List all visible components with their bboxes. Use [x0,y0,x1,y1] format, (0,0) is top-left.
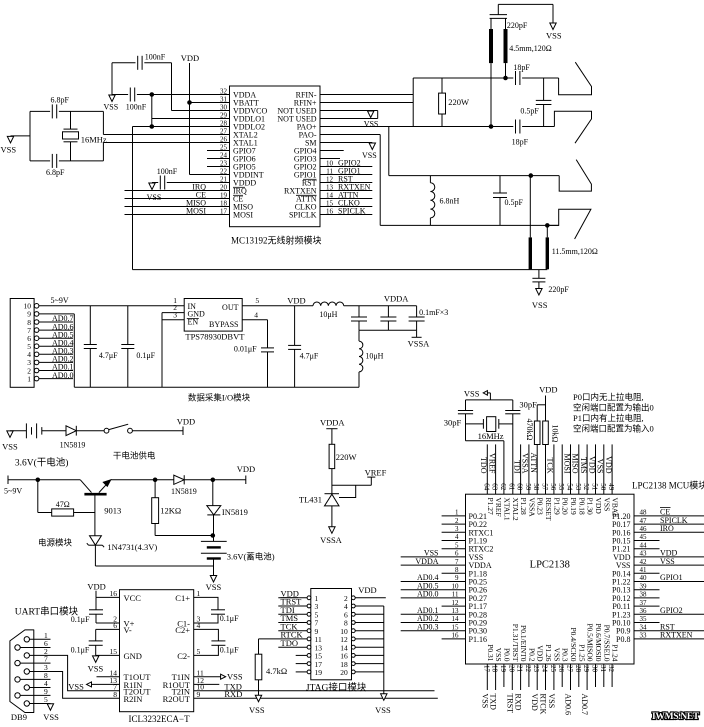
wire PAO+ link to lower network top rail [388,127,390,176]
svg-text:14: 14 [326,191,334,199]
svg-text:VDD: VDD [536,645,545,662]
svg-text:5: 5 [455,541,459,549]
overline on TRST label [281,597,299,599]
wire U4 pin 6 VSS [401,556,466,558]
wire U4 pin 58 P0.23 [536,445,538,495]
junction dot bottom rail stripline [546,224,550,228]
wire zener to bottom rail [94,545,96,566]
wire lower network bottom rail [380,224,559,226]
svg-text:6.8nH: 6.8nH [440,197,460,206]
svg-text:VDD: VDD [87,581,105,591]
capacitor C2 100nF on VDDA [129,88,131,102]
svg-text:16: 16 [326,207,334,215]
svg-text:P1.16: P1.16 [469,635,487,644]
svg-text:VDD: VDD [594,498,603,515]
J2 pin 15 [307,654,311,658]
svg-text:VDD: VDD [539,385,557,395]
wire pin8 stub [320,150,344,152]
svg-text:TDO: TDO [281,638,298,648]
svg-text:44: 44 [640,541,648,549]
wire U4 pin 28 P1.25 [578,664,580,687]
svg-text:RESET: RESET [544,498,553,521]
svg-text:28: 28 [574,665,582,673]
capacitor 0.5pF lower network [499,176,501,193]
wire T2IN pin10 TXD net [194,690,435,692]
wire U4 pin 18 VSS [495,664,497,690]
svg-text:4.7μF: 4.7μF [300,352,319,361]
battery BT2 3.6V rechargeable symbol [201,540,227,542]
wire GND pin15 [96,654,120,656]
wire pin20 IRQ net [125,190,230,192]
svg-text:GPIO2: GPIO2 [660,606,683,615]
svg-text:15: 15 [326,199,334,207]
wire U4 pin 24 P1.26 [545,664,547,690]
svg-text:60: 60 [516,483,524,491]
svg-text:5: 5 [255,296,259,305]
svg-text:VDD: VDD [604,456,613,474]
svg-text:31: 31 [599,665,607,673]
wire U4 pin 56 P1.29 [553,444,555,494]
wire U4 pin 21 P0.1/EINT0 [520,664,522,690]
svg-text:VSS: VSS [104,103,119,112]
wire J2 TDI net [278,613,307,615]
svg-text:P1.29: P1.29 [552,498,561,516]
svg-text:P1口内有上拉电阻,: P1口内有上拉电阻, [573,413,644,423]
wire TL431 anode to VSSA [331,506,333,527]
svg-text:21: 21 [516,665,524,673]
arrow into R1IN [87,682,92,687]
wire J2 TMS net [278,622,307,624]
wire pin21 VDDD to C3 and VSS [167,182,230,184]
svg-text:35: 35 [640,615,648,623]
svg-text:R2IN: R2IN [124,694,143,704]
diode D3 1N5819 shunt [212,480,214,506]
wire U4 pin 10 P0.26 [401,589,466,591]
wire pin1 RFIN- to network [320,94,413,96]
capacitor 220pF top [490,14,507,16]
wire U4 pin 17 P0.31 [486,664,488,690]
wire lower network top rail [389,175,559,177]
svg-text:P0.2: P0.2 [527,648,536,662]
svg-text:P1.28: P1.28 [519,498,528,516]
wire C2- pin5 [194,645,219,655]
svg-text:220pF: 220pF [548,285,569,294]
J2 pin 14 [351,645,355,649]
wire J1 pin6 AD0.5 net [39,337,73,339]
svg-text:13: 13 [326,183,334,191]
svg-text:12KΩ: 12KΩ [160,506,181,516]
wire crystal loop right lower to XTAL1 [102,143,104,161]
wire pin25 GPIO7 stub [207,150,230,152]
svg-text:3: 3 [173,310,177,319]
svg-text:64: 64 [482,483,490,491]
wire U4 pin 9 P0.25 [401,581,466,583]
inductor L2 10uH series VDD [313,302,344,306]
svg-text:23: 23 [532,665,540,673]
wire U4 pin 3 RTXC1 [442,531,466,533]
wire analog ground bus [359,329,417,331]
svg-text:6: 6 [113,621,117,630]
svg-text:VSS: VSS [596,459,605,474]
svg-text:VREF: VREF [494,498,503,517]
svg-text:IRO: IRO [660,524,674,533]
svg-text:空闲端口配置为输出0: 空闲端口配置为输出0 [573,403,654,413]
svg-text:1N4731(4.3V): 1N4731(4.3V) [107,542,157,552]
svg-text:3.6V(蓄电池): 3.6V(蓄电池) [227,552,275,562]
resistor R6 10k ohm [543,421,549,445]
svg-text:11.5mm,120Ω: 11.5mm,120Ω [552,247,598,256]
svg-text:R2OUT: R2OUT [163,694,191,704]
svg-text:16MHz: 16MHz [478,431,504,441]
svg-text:P0.0: P0.0 [502,648,511,662]
ground VSS pins 3-4 [368,111,374,118]
capacitor 220pF bottom [538,270,540,279]
svg-text:220W: 220W [336,452,357,462]
wire pin18 MISO net [125,206,230,208]
inductor L3 10uH shunt [358,330,360,341]
J2 pin 17 [307,662,311,666]
svg-text:P0.1/EINT0: P0.1/EINT0 [519,625,528,662]
svg-text:VDDA: VDDA [320,417,345,427]
capacitor 18pF top series [515,71,517,85]
IC U4 LPC2138 body [466,494,635,664]
junction dot 47 ohm branch [36,478,40,482]
P1 DB9 pin 3 [24,669,29,674]
svg-text:P1.25: P1.25 [577,644,586,662]
wire U4 pin 43 VDD [634,556,704,558]
svg-text:53: 53 [574,483,582,491]
wire T1OUT pin14 stub [97,676,120,678]
svg-text:P0.4/SCK0: P0.4/SCK0 [569,628,578,662]
svg-text:57: 57 [541,483,549,491]
capacitor C7 0.1uF input [127,306,129,345]
svg-text:VSSA: VSSA [521,453,530,474]
svg-text:58: 58 [532,483,540,491]
wire D3 to battery BT2 [213,515,215,542]
capacitor C14 0.1uF V- to GND [95,629,97,641]
ground VSS JTAG [381,694,387,701]
svg-text:JTAG接口模块: JTAG接口模块 [306,682,367,694]
svg-text:15: 15 [110,647,118,656]
svg-text:VDD: VDD [358,585,376,595]
wire bottom rail [95,565,213,567]
wire R1IN pin13 from VSS [91,683,120,685]
wire C1+ pin1 [194,597,218,609]
wire U4 pin 12 P1.17 [442,605,466,607]
wire U4 pin 1 P0.21 [442,515,466,517]
connector J1 10-pin header body [10,299,34,388]
junction dot D3 branch [211,478,215,482]
svg-text:4.7kΩ: 4.7kΩ [266,666,287,676]
svg-text:3: 3 [455,525,459,533]
wire pin28 VDDLO2 [133,126,230,128]
crystal X2 16MHz symbol [466,423,484,425]
svg-text:7: 7 [455,558,459,566]
wire C1 left leg to VSS [111,63,113,95]
junction dot stripline left leg bottom rail [489,125,493,129]
wire VDD rail vertical to pin22 VDDINT [189,63,191,175]
svg-text:37: 37 [640,599,648,607]
svg-text:63: 63 [491,483,499,491]
P1 DB9 pin 8 [15,677,20,682]
svg-text:25: 25 [549,665,557,673]
svg-text:56: 56 [549,483,557,491]
svg-text:20: 20 [507,665,515,673]
svg-text:AD0.0: AD0.0 [52,371,74,380]
svg-text:18: 18 [491,665,499,673]
ground VSS crystal [7,136,13,143]
capacitor C15 0.1uF C1 [211,609,225,611]
svg-text:5~9V: 5~9V [51,296,69,305]
svg-text:42: 42 [640,558,648,566]
ground VSS battery left [7,431,13,438]
svg-text:0.5pF: 0.5pF [520,107,539,116]
svg-text:50: 50 [599,483,607,491]
capacitor C17 30pF left [465,400,467,411]
svg-text:12: 12 [326,175,334,183]
svg-text:P0.23: P0.23 [536,498,545,516]
svg-text:33: 33 [640,632,648,640]
wire U4 pin 20 P1.31/TRST [511,664,513,690]
J2 pin 19 [307,670,311,674]
transistor Q1 9013 [80,480,91,493]
svg-text:LPC2138 MCU模块: LPC2138 MCU模块 [632,480,704,491]
wire pin6 PAO- down to lower network [320,134,380,136]
svg-text:16MHz: 16MHz [81,135,107,145]
wire stripline left leg to top rail [529,176,531,238]
ground VSS at VDDD [149,183,155,190]
svg-text:0.1μF: 0.1μF [220,614,239,623]
wire JTAG VSS bus [383,606,385,694]
J2 pin 2 [351,596,355,600]
svg-text:0.1μF: 0.1μF [220,646,239,655]
wire U4 pin 47 P0.17 [634,523,704,525]
wire 220pF top to VSS [497,4,499,14]
P1 DB9 pin 1 [24,637,29,642]
junction dot pin32 net [150,93,154,97]
svg-text:AD0.3: AD0.3 [417,622,439,631]
svg-text:VDD: VDD [530,694,539,712]
wire J2 pin2 to VDD [355,597,386,599]
svg-text:VREF: VREF [487,453,496,474]
capacitor 0.5pF shunt upper network [543,78,545,100]
svg-text:54: 54 [566,483,574,491]
wire pin9 stub [320,158,340,160]
svg-text:P1.26: P1.26 [544,644,553,662]
wire pin30 VDDVCO [172,110,230,112]
svg-text:9: 9 [455,574,459,582]
wire J2 pin 15 stub [296,654,307,656]
connector P1 DB9 body [10,630,34,713]
arrow out of T1IN [221,674,226,679]
wire U4 pin 62 XTAL1 [503,441,505,494]
wire V+ pin2 [96,622,120,624]
capacitor C18 30pF right [512,400,514,411]
wire U4 pin 34 P0.9 [634,630,704,632]
wire J1 pin3 AD0.2 net [39,361,73,363]
svg-text:RXTXEN: RXTXEN [660,631,693,640]
svg-text:VDD: VDD [181,53,199,63]
svg-text:AD0.0: AD0.0 [417,590,439,599]
svg-text:VDDA: VDDA [415,557,438,566]
svg-text:TCK: TCK [546,458,555,474]
resistor R4 4.7k ohm RTCK pulldown [258,639,260,654]
svg-text:VSS: VSS [43,712,59,722]
svg-text:9013: 9013 [104,506,121,516]
svg-text:27: 27 [566,665,574,673]
wire crystal loop right upper to XTAL2 [102,111,104,134]
resistor R7 220W [331,429,333,445]
svg-text:XTAL2: XTAL2 [511,498,520,521]
svg-text:470kΩ: 470kΩ [525,419,534,441]
wire U4 pin 53 P0.18 [578,444,580,494]
svg-text:0.1μF: 0.1μF [71,646,90,655]
svg-text:8: 8 [113,690,117,699]
wire J2 pin 17 stub [296,663,307,665]
svg-text:电源模块: 电源模块 [38,538,73,548]
capacitor 18pF bottom series [515,120,517,134]
wire U4 pin 14 P0.29 [401,622,466,624]
wire VSS to crystal loop [11,135,31,137]
wire J2 VDD net [278,597,307,599]
svg-text:P0.3: P0.3 [561,648,570,662]
wire input rail to Q1 collector [8,479,80,481]
svg-text:TL431: TL431 [299,495,322,505]
antenna 2 lower of upper network [554,111,591,143]
svg-text:C1+: C1+ [175,593,190,603]
svg-text:14: 14 [452,615,460,623]
svg-text:VDD: VDD [287,296,305,306]
svg-text:61: 61 [507,483,515,491]
J2 pin 3 [307,604,311,608]
wire J2 even pins to VSS bus [355,605,384,607]
wire T1IN pin11 to VSS [194,676,221,678]
antenna 4 lower [547,209,591,239]
svg-text:P1.30: P1.30 [586,498,595,516]
svg-text:10: 10 [452,582,460,590]
wire U4 pin 63 VREF [495,444,497,494]
svg-text:10kΩ: 10kΩ [551,425,560,443]
wire pin13 RXTXEN net [320,190,372,192]
svg-text:47Ω: 47Ω [56,500,70,509]
wire U4 pin 49 VBAT [611,444,613,494]
svg-text:IN5819: IN5819 [222,507,248,517]
svg-text:48: 48 [640,509,648,517]
ground VSS antenna feed [550,23,556,30]
resistor R1 220W [441,78,443,93]
svg-text:30pF: 30pF [444,418,462,428]
wire VDD to pullup resistors [545,396,547,422]
J2 pin 10 [351,629,355,633]
svg-text:DB9: DB9 [11,712,27,722]
wire crystal loop left [29,111,31,160]
svg-text:VSSA: VSSA [320,535,343,545]
svg-text:VSS: VSS [480,694,489,709]
P1 DB9 pin 4 [24,685,29,690]
svg-text:VSS: VSS [364,120,379,129]
svg-text:51: 51 [591,483,599,491]
svg-text:VSSA: VSSA [408,339,431,349]
resistor R3 12k ohm [154,480,156,498]
U2 EN overline [187,317,199,319]
wire U4 pin 30 P0.6/MOSI0 [595,664,597,687]
wire 5~9V rail from J1 pin10 to U2 IN [39,305,184,307]
svg-text:100nF: 100nF [126,103,147,112]
capacitor C9 4.7uF output [294,306,296,346]
svg-text:C2-: C2- [177,651,190,661]
svg-text:SPICLK: SPICLK [338,206,366,215]
wire U4 pin 7 VDDA [401,564,466,566]
svg-text:VSS: VSS [88,664,104,674]
wire switch to VDD [132,430,183,432]
svg-text:43: 43 [640,550,648,558]
wire emitter rail to VDD [111,479,246,481]
svg-text:6: 6 [455,550,459,558]
overline on CE net label [660,507,671,509]
svg-text:SPICLK: SPICLK [289,211,317,220]
wire J1 pin1 AD0.0 net [39,378,73,380]
antenna 1 upper [559,62,592,94]
svg-text:22: 22 [524,665,532,673]
capacitor C8 0.01uF bypass [267,320,269,348]
svg-text:P0.18: P0.18 [577,498,586,516]
svg-text:VSS: VSS [660,557,675,566]
wire pin24 GPIO6 stub [207,158,230,160]
svg-text:RXD: RXD [224,689,242,699]
svg-text:ICL3232ECA−T: ICL3232ECA−T [129,714,191,724]
capacitor C12 0.1mF third [416,306,418,317]
wire crystal bottom rail to XTAL1 [466,440,504,442]
wire J1 pin5 AD0.4 net [39,345,73,347]
svg-text:VREF: VREF [365,467,387,477]
ground VSS battery [210,576,216,583]
junction dot VDD to VBATT [188,101,192,105]
wire U4 pin 64 P1.27 [486,444,488,494]
svg-text:VDDA: VDDA [384,294,409,304]
J2 pin 16 [351,654,355,658]
wire vertical junction to pin29 and pin28 [151,95,153,127]
svg-text:4: 4 [197,621,201,630]
wire pin5 PAO+ bottom rail of upper network [320,126,513,128]
J2 pin 11 [307,637,311,641]
capacitor C6 4.7uF input [89,306,91,345]
U1 overlines on IRQ CE RST ATTN pin names [233,186,245,188]
svg-text:数据采集I/O模块: 数据采集I/O模块 [188,393,251,403]
ground rail of power module [74,386,359,388]
J2 pin 20 [351,670,355,674]
wire pin2 RFIN+ to network [320,102,413,104]
svg-text:VSS: VSS [602,498,611,512]
junction dot R3 branch [153,478,157,482]
junction dot stripline right leg top rail [504,76,508,80]
svg-text:0.01μF: 0.01μF [234,345,257,354]
svg-text:12: 12 [452,599,460,607]
wire U4 pin 48 P1.20 [634,515,704,517]
svg-text:BYPASS: BYPASS [209,320,239,329]
transmission line 11.5mm 120ohm stripline [529,237,532,269]
wire U4 pin 23 VDD [536,664,538,690]
svg-text:19: 19 [315,668,323,677]
svg-text:VSS: VSS [494,648,503,662]
terminal VREF tick [367,476,375,478]
svg-text:36: 36 [640,607,648,615]
capacitor C13 0.1uF VCC to V+ [95,597,97,609]
svg-text:59: 59 [524,483,532,491]
wire U4 pin 44 P1.21 [634,548,660,550]
svg-text:17: 17 [482,665,490,673]
junction dot pin28 net [150,125,154,129]
wire U4 pin 5 RTXC2 [442,548,466,550]
